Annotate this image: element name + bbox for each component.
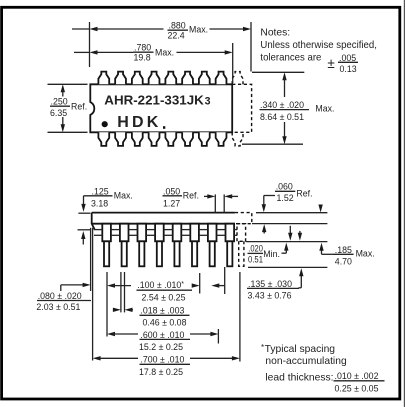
- dashed pin bottom: [232, 132, 243, 146]
- svg-text:Max.: Max.: [114, 191, 133, 201]
- svg-text:.135 ± .030: .135 ± .030: [248, 279, 292, 289]
- dim .185 Max: [318, 205, 374, 267]
- dim .780 Max: [74, 43, 233, 83]
- svg-text:.250: .250: [51, 97, 68, 107]
- dim .340 Max: [242, 72, 334, 144]
- dim .100 typ: [107, 280, 225, 303]
- svg-text:6.35: 6.35: [50, 108, 67, 118]
- svg-text:.780: .780: [134, 43, 151, 53]
- dashed body extension side: [235, 213, 252, 224]
- svg-text:Max.: Max.: [155, 48, 174, 58]
- svg-text:2.54 ± 0.25: 2.54 ± 0.25: [142, 293, 186, 303]
- dashed max-length body extension: [232, 84, 251, 132]
- body bar side view: [92, 213, 235, 230]
- svg-text:.880: .880: [169, 21, 186, 31]
- svg-text:8.64 ± 0.51: 8.64 ± 0.51: [260, 112, 304, 122]
- svg-text:.100 ± .010*: .100 ± .010*: [137, 280, 184, 290]
- svg-text:Min.: Min.: [263, 249, 280, 259]
- dashed pin top: [232, 72, 243, 85]
- dim .250 Ref: [48, 84, 88, 132]
- dashed shoulder: [237, 224, 246, 242]
- svg-text:*Typical spacing: *Typical spacing: [261, 343, 335, 355]
- right edge scan artifact: [404, 0, 405, 407]
- svg-text:0.25 ± 0.05: 0.25 ± 0.05: [335, 383, 379, 393]
- dim .135 +- .030: [247, 231, 303, 300]
- svg-text:HDK: HDK: [117, 114, 161, 131]
- svg-text:Ref.: Ref.: [183, 191, 199, 201]
- svg-text:Ref.: Ref.: [296, 188, 312, 198]
- pin1 dot: [102, 121, 108, 127]
- svg-text:AHR-221-331JK: AHR-221-331JK: [104, 92, 204, 107]
- dim .700: [93, 355, 240, 377]
- notes text: [260, 28, 377, 74]
- svg-text:.020: .020: [248, 244, 263, 254]
- svg-text:tolerances are: tolerances are: [260, 53, 321, 64]
- svg-text:.185: .185: [335, 245, 352, 255]
- svg-text:.005: .005: [339, 53, 356, 63]
- dim .060 Ref: [262, 181, 313, 233]
- svg-text:0.51: 0.51: [248, 255, 263, 265]
- shoulders and leads (8 leads: shoulder + narrow pin each): [102, 224, 234, 267]
- top pins row (8): [98, 72, 226, 85]
- web lines between shoulders: [94, 230, 237, 236]
- svg-text:non-accumulating: non-accumulating: [265, 356, 347, 367]
- right extension lines E1-E4: [246, 213, 327, 268]
- dim .050 Ref: [163, 186, 239, 212]
- svg-text:3.43 ± 0.76: 3.43 ± 0.76: [248, 290, 292, 300]
- svg-text:4.70: 4.70: [335, 256, 352, 266]
- svg-text:0.46 ± 0.08: 0.46 ± 0.08: [143, 318, 187, 328]
- svg-text:.018 ± .003: .018 ± .003: [140, 305, 184, 315]
- svg-text:Max.: Max.: [315, 104, 334, 114]
- svg-text:1.27: 1.27: [163, 199, 180, 209]
- dim .600: [107, 330, 218, 352]
- svg-text:lead thickness:: lead thickness:: [265, 373, 333, 384]
- svg-text:Max.: Max.: [356, 249, 375, 259]
- svg-text:.010 ± .002: .010 ± .002: [335, 371, 379, 381]
- svg-text:22.4: 22.4: [168, 30, 185, 40]
- svg-text:15.2 ± 0.25: 15.2 ± 0.25: [139, 342, 183, 352]
- svg-text:Notes:: Notes:: [260, 28, 290, 39]
- svg-text:17.8 ± 0.25: 17.8 ± 0.25: [139, 367, 183, 377]
- footnote text: [261, 343, 385, 393]
- svg-text:.125: .125: [92, 186, 109, 196]
- svg-text:.600 ± .010: .600 ± .010: [140, 330, 184, 340]
- svg-text:3: 3: [205, 95, 211, 107]
- svg-text:1.52: 1.52: [277, 193, 294, 203]
- dashed lead: [239, 241, 244, 266]
- dim .880 Max: [72, 21, 251, 72]
- svg-text:Ref.: Ref.: [71, 102, 87, 112]
- svg-text:.080 ± .020: .080 ± .020: [38, 291, 82, 301]
- bottom pins row (8): [98, 132, 226, 146]
- IC body U1 top view with pin-1 notch: [90, 84, 232, 132]
- svg-text:0.13: 0.13: [340, 64, 357, 74]
- dim .020 Min: [248, 226, 293, 265]
- svg-text:.050: .050: [163, 186, 180, 196]
- bottom extension lines: [91, 228, 240, 362]
- svg-text:3.18: 3.18: [91, 199, 108, 209]
- svg-text:Unless otherwise specified,: Unless otherwise specified,: [260, 40, 377, 51]
- svg-text:.060: .060: [276, 181, 293, 191]
- svg-text:19.8: 19.8: [134, 52, 151, 62]
- svg-text:±: ±: [327, 56, 334, 71]
- svg-text:Max.: Max.: [189, 25, 208, 35]
- dim .080: [36, 283, 91, 312]
- dim .125 Max: [78, 186, 133, 244]
- svg-text:.340 ± .020: .340 ± .020: [260, 100, 304, 110]
- svg-text:2.03 ± 0.51: 2.03 ± 0.51: [36, 302, 80, 312]
- dim .018: [113, 305, 190, 327]
- svg-text:.700 ± .010: .700 ± .010: [140, 355, 184, 365]
